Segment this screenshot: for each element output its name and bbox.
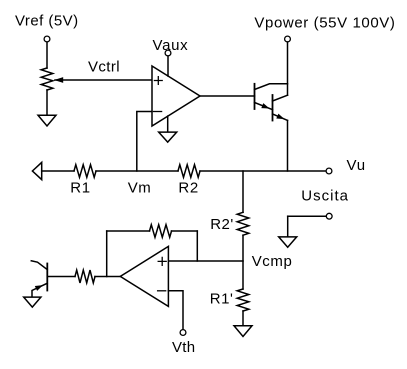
svg-text:Vm: Vm bbox=[128, 179, 152, 196]
svg-text:Vpower (55V 100V): Vpower (55V 100V) bbox=[254, 15, 395, 32]
svg-text:R2': R2' bbox=[210, 216, 234, 233]
svg-text:Uscita: Uscita bbox=[301, 187, 349, 204]
svg-text:R1': R1' bbox=[210, 291, 234, 308]
svg-text:Vcmp: Vcmp bbox=[252, 253, 293, 270]
svg-text:Vref (5V): Vref (5V) bbox=[15, 12, 79, 29]
svg-text:R1: R1 bbox=[70, 179, 90, 196]
svg-text:Vth: Vth bbox=[172, 339, 195, 356]
svg-text:R2: R2 bbox=[178, 179, 198, 196]
svg-text:Vu: Vu bbox=[347, 157, 366, 174]
svg-text:Vaux: Vaux bbox=[153, 37, 189, 54]
svg-text:Vctrl: Vctrl bbox=[88, 59, 120, 76]
